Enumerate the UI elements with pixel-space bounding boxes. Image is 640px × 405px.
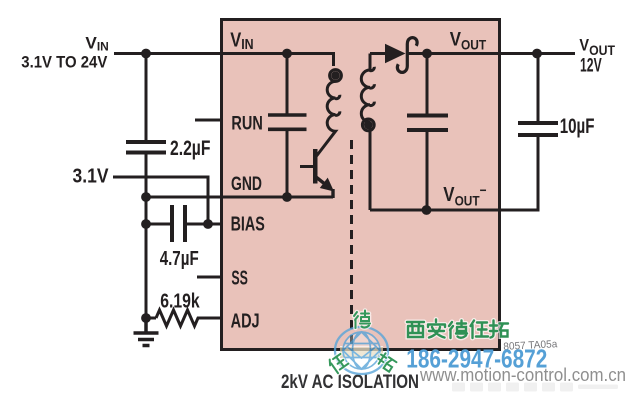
resistor 6.19k <box>156 310 201 326</box>
capacitor 10uF <box>518 123 558 135</box>
svg-text:RUN: RUN <box>231 113 262 135</box>
svg-text:BIAS: BIAS <box>231 213 265 235</box>
transformer T1 secondary phase dot <box>364 121 373 130</box>
node internal cap bottom <box>282 192 292 202</box>
capacitor internal output <box>407 116 448 131</box>
svg-text:SS: SS <box>231 267 248 289</box>
wire resistor to ADJ pin <box>201 317 222 320</box>
capacitor 2.2uF <box>126 142 166 153</box>
node 3.1V-BIAS junction <box>203 219 213 229</box>
node ground junction <box>141 313 151 323</box>
transistor Q1 <box>300 149 334 198</box>
ground <box>134 318 159 346</box>
transformer T1 secondary winding <box>361 54 374 211</box>
wire BIAS left segment <box>146 223 170 226</box>
wire secondary bottom lead <box>369 126 372 210</box>
diode D1 schottky <box>385 38 417 73</box>
wire internal cap leads <box>286 54 289 116</box>
svg-text:3.1V: 3.1V <box>73 166 110 188</box>
node diode cathode <box>422 49 432 59</box>
wire BIAS right segment <box>187 223 222 226</box>
capacitor 4.7uF <box>172 205 185 242</box>
wire SS stub <box>197 276 222 279</box>
svg-text:2kV AC ISOLATION: 2kV AC ISOLATION <box>281 371 419 393</box>
svg-text:6.19k: 6.19k <box>160 290 200 313</box>
node VOUT- internal <box>422 205 432 215</box>
watermark stamp <box>335 327 388 374</box>
node VIN junction <box>141 49 151 59</box>
watermark stamp characters halo <box>327 311 397 375</box>
svg-text:2.2µF: 2.2µF <box>170 137 211 160</box>
wire VOUT rail secondary <box>370 52 385 55</box>
transformer T1 primary winding <box>317 54 342 157</box>
node internal cap top <box>282 49 292 59</box>
isolation barrier dashed line <box>350 140 353 347</box>
svg-text:4.7µF: 4.7µF <box>160 247 199 270</box>
node VOUT external <box>532 49 542 59</box>
wire VIN rail <box>114 52 335 55</box>
svg-text:12V: 12V <box>580 56 602 77</box>
svg-text:3.1V TO 24V: 3.1V TO 24V <box>21 54 107 72</box>
stamp globe inner haze <box>344 333 379 368</box>
watermark stamp characters <box>327 311 397 375</box>
node GND junction <box>141 192 151 202</box>
faint bottom watermark <box>452 383 618 392</box>
wire internal out cap leads <box>426 54 429 114</box>
svg-text:ADJ: ADJ <box>231 311 260 333</box>
watermark company name halo <box>407 320 508 339</box>
capacitor internal VIN bypass <box>268 115 307 129</box>
wire VOUT- rail <box>370 137 538 210</box>
IC block U1 <box>222 20 500 350</box>
wire below 2.2uF cap <box>145 155 148 319</box>
wire 3.1V to BIAS <box>113 177 208 224</box>
wire left ground rail <box>145 54 148 141</box>
svg-text:GND: GND <box>231 173 262 195</box>
node BIAS rail junction <box>141 219 151 229</box>
svg-text:www.motion-control.com.cn: www.motion-control.com.cn <box>419 364 626 385</box>
transformer T1 primary phase dot <box>331 71 340 80</box>
wire RUN stub <box>195 119 222 122</box>
wire GND pin <box>146 196 333 199</box>
wire 10uF top lead <box>537 54 540 122</box>
svg-text:10µF: 10µF <box>560 115 595 138</box>
wire ADJ to resistor <box>146 317 156 320</box>
watermark company name <box>407 320 508 339</box>
